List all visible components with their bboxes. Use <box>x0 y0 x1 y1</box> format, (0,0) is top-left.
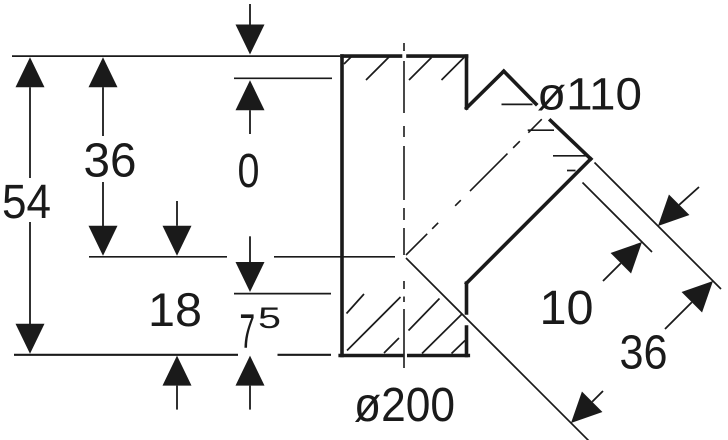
branch lower wall <box>467 159 591 283</box>
dimension line E y=355 <box>14 354 331 356</box>
extension line for dim 36 through axis crossing <box>406 258 589 440</box>
dim 10 arrow tail upper <box>679 187 699 205</box>
dim 54 upper arrow <box>16 57 45 87</box>
hatch branch wall horizontals <box>502 104 588 170</box>
dimension line B y=78 <box>234 77 332 79</box>
vertical centerline <box>403 43 405 368</box>
dim 54 tail upper <box>29 87 31 178</box>
dim 18 upper tail <box>176 201 178 226</box>
dim 54 lower arrow <box>16 324 45 354</box>
dim 36 right arrow lower <box>571 392 602 423</box>
dim 0 upper tail <box>249 4 251 25</box>
dim 18 lower tail <box>176 386 178 410</box>
main pipe outline left wall <box>340 56 344 355</box>
dim 10 arrow at depth plane <box>611 242 642 273</box>
hatch top band <box>344 57 464 81</box>
dim 7.5 upper arrow <box>236 262 265 292</box>
dim 36 right tail upper <box>665 302 692 329</box>
dimension line A y=56 <box>12 55 340 57</box>
svg-text:5: 5 <box>258 302 281 335</box>
dim 0 upper arrow <box>236 25 265 55</box>
dim 36 lower arrow <box>89 226 118 256</box>
svg-text:ø200: ø200 <box>354 379 455 432</box>
hatch bottom band <box>347 294 466 354</box>
svg-text:54: 54 <box>2 176 51 229</box>
dim 0 lower tail <box>249 110 251 134</box>
dim 36 tail upper <box>102 87 104 136</box>
dim 10 arrow tail lower <box>603 263 621 281</box>
main pipe outline right wall lower <box>465 283 469 355</box>
branch centerline 45deg <box>406 119 542 255</box>
svg-text:7: 7 <box>240 306 256 359</box>
dim 7.5 upper tail <box>249 236 251 262</box>
svg-text:18: 18 <box>148 283 202 336</box>
dim 36 upper arrow <box>89 57 118 87</box>
svg-text:ø110: ø110 <box>537 69 642 120</box>
dim 36 right arrow upper <box>682 281 713 312</box>
dim 18 lower arrow <box>163 356 192 386</box>
main pipe outline bottom edge <box>340 354 468 358</box>
extension line 2 socket depth plane <box>583 183 653 253</box>
main pipe outline right wall upper <box>465 56 469 108</box>
svg-text:0: 0 <box>238 145 260 198</box>
dim 54 tail lower <box>29 222 31 324</box>
dimension line C y=257 <box>89 256 395 258</box>
dim 0 lower arrow <box>236 80 265 110</box>
dim 36 tail lower <box>102 182 104 226</box>
dim 7.5 lower tail <box>249 386 251 410</box>
branch upper wall flank (V notch) <box>467 71 504 108</box>
dimension line D y=293 <box>234 293 331 295</box>
extension line 1 socket end face plane <box>595 163 722 290</box>
svg-text:36: 36 <box>84 135 137 188</box>
main pipe outline top edge <box>342 54 467 58</box>
dim 36 right tail lower <box>592 391 603 402</box>
dim 10 arrow at end face <box>658 195 689 226</box>
dim 18 upper arrow <box>163 226 192 256</box>
branch socket end face <box>504 71 591 159</box>
svg-text:36: 36 <box>620 327 668 380</box>
svg-text:10: 10 <box>540 282 594 335</box>
dim 7.5 lower arrow <box>236 356 265 386</box>
